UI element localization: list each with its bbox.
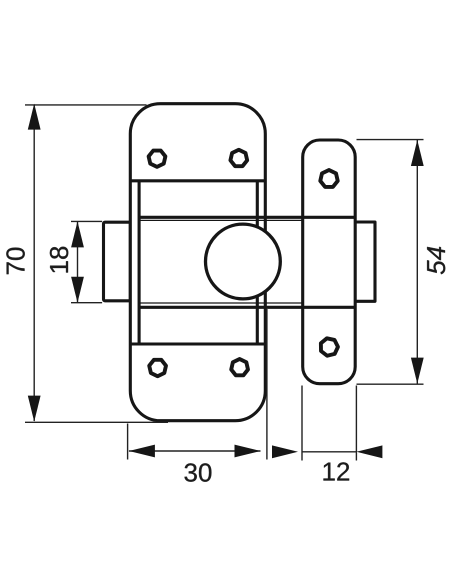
screw hole keeper top xyxy=(320,170,337,187)
bolt guide rail top xyxy=(139,216,355,219)
dim 30 line xyxy=(129,450,261,452)
dim 70 line xyxy=(33,105,35,422)
arrow 70 down xyxy=(28,396,41,422)
label 30 xyxy=(184,463,211,481)
dim 70 extension top xyxy=(25,104,147,106)
arrow 12 left (outside, pointing right) xyxy=(272,445,298,458)
arrow 18 down xyxy=(71,277,84,303)
dim 30 extension right xyxy=(266,309,268,460)
dim 70 extension bottom xyxy=(25,421,168,423)
arrow 30 left xyxy=(129,445,155,458)
dim 12 line xyxy=(302,451,356,453)
knob xyxy=(206,224,281,299)
label 70 xyxy=(6,248,24,275)
divider line (top plate bottom) xyxy=(130,179,265,182)
lock body outline xyxy=(130,104,265,421)
bolt right end xyxy=(355,222,375,301)
inner left vertical line xyxy=(138,181,141,344)
bolt bottom edge (thin) xyxy=(139,302,303,304)
screw hole body bottom-left xyxy=(149,360,166,376)
bolt top edge (thin) xyxy=(139,219,303,221)
dim 54 extension top xyxy=(357,139,424,141)
label 12 xyxy=(323,462,349,480)
label 18 xyxy=(50,247,68,273)
inner right vertical line xyxy=(256,181,259,344)
keeper plate xyxy=(303,140,356,384)
divider line (bottom plate top) xyxy=(130,342,265,345)
arrow 70 up xyxy=(28,104,41,130)
arrow 30 right xyxy=(235,445,261,458)
dim 18 line xyxy=(77,221,79,302)
dim 12 extension left xyxy=(301,386,303,461)
screw hole body top-right xyxy=(230,150,247,166)
dim 18 extension bottom xyxy=(71,302,102,304)
dim 54 line xyxy=(416,140,418,384)
arrow 54 down xyxy=(411,358,424,384)
bolt tab (left end of bolt) xyxy=(104,222,131,301)
bolt guide rail bottom xyxy=(139,306,355,309)
screw hole body top-left xyxy=(149,151,166,167)
arrow 18 up xyxy=(71,221,84,247)
screw hole body bottom-right xyxy=(231,359,248,375)
dim 12 extension right xyxy=(355,386,357,461)
dim 30 extension left xyxy=(127,424,129,460)
arrow 12 right (outside, pointing left) xyxy=(356,445,382,458)
arrow 54 up xyxy=(411,140,424,166)
dim 54 extension bottom xyxy=(357,383,424,385)
screw hole keeper bottom xyxy=(321,338,338,355)
label 54 xyxy=(427,247,445,274)
dim 18 extension top xyxy=(71,220,102,222)
